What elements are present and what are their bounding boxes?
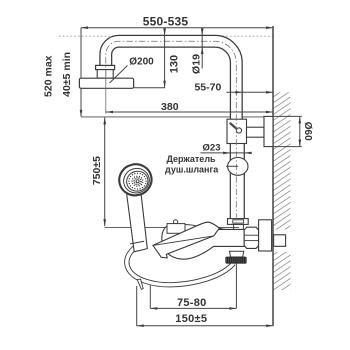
dim 750 line	[104, 117, 106, 226]
arrowheads	[80, 26, 301, 327]
knurled diverter knob	[226, 257, 246, 263]
dim 550-535 line	[81, 27, 273, 29]
DIMENSIONS	[81, 28, 302, 326]
wall escutcheon at faucet	[259, 220, 272, 251]
wall bracket flange	[264, 116, 273, 146]
diverter box	[227, 119, 247, 143]
shower head axis	[105, 70, 107, 114]
shower arm pipe (gooseneck)	[106, 41, 237, 119]
svg-text:130: 130	[169, 55, 181, 73]
mounting reference line	[81, 116, 264, 118]
svg-text:750±5: 750±5	[91, 156, 103, 185]
faucet inlet nut	[228, 219, 249, 225]
svg-text:520 max: 520 max	[42, 55, 54, 97]
extension line 75-80 right (faucet axis)	[235, 264, 237, 309]
extension line 75-80 left	[149, 284, 151, 309]
dim 75-80 line	[150, 307, 236, 309]
centerline of riser	[106, 41, 237, 224]
diverter knob connector	[229, 251, 243, 257]
svg-text:380: 380	[161, 101, 179, 113]
barrel top line	[210, 229, 244, 231]
faucet axis reference line	[105, 226, 239, 228]
svg-text:150±5: 150±5	[175, 313, 207, 325]
in-wall supply pipe	[274, 235, 286, 247]
svg-text:Ø60: Ø60	[302, 122, 313, 141]
svg-text:75-80: 75-80	[177, 297, 207, 309]
wall bracket arm	[247, 127, 265, 137]
wall hatching	[274, 92, 291, 290]
dia19 callout line	[201, 28, 203, 69]
svg-text:Ø200: Ø200	[129, 56, 154, 67]
diverter lever	[231, 124, 242, 134]
handshower nozzle dots inner ring	[131, 176, 143, 187]
shower head connector cap	[96, 65, 115, 69]
dia60 extension lines	[274, 115, 302, 117]
max-height dotted reference line	[59, 35, 273, 37]
dim 130 line	[164, 28, 166, 88]
leader to hose holder	[226, 165, 238, 167]
svg-text:55-70: 55-70	[194, 81, 221, 93]
spout face-break line	[153, 236, 214, 246]
extension line 150 left	[136, 286, 138, 326]
hose holder ball	[228, 158, 248, 176]
faucet top cartridge cap	[167, 224, 185, 234]
handshower head outer rim	[116, 161, 155, 199]
svg-text:душ.шланга: душ.шланга	[165, 164, 219, 174]
handshower handle	[127, 192, 148, 252]
hatch clearance around in-wall pipe	[274, 230, 291, 253]
dim 150 line	[137, 325, 274, 327]
labels	[143, 15, 189, 29]
dia60 dim line	[299, 116, 301, 146]
dim 55-70 line	[227, 91, 274, 93]
spout	[153, 222, 220, 258]
faucet body	[162, 222, 244, 259]
svg-text:Ø23: Ø23	[203, 142, 221, 153]
wall line	[272, 26, 274, 326]
svg-text:40±5 min: 40±5 min	[61, 52, 73, 97]
dia23 callout line	[200, 152, 249, 154]
handshower face plate	[124, 169, 150, 194]
faucet top button bump	[174, 220, 178, 224]
svg-text:Ø19: Ø19	[191, 54, 203, 74]
handshower head middle ring	[121, 166, 152, 196]
faucet inlet pipe stub	[233, 223, 235, 230]
svg-text:Держатель: Держатель	[167, 154, 217, 164]
hose end tip	[137, 279, 143, 289]
dim 380 line	[106, 111, 273, 113]
handshower handle cap line	[130, 241, 144, 244]
extension line left (520 max)	[80, 28, 82, 78]
svg-text:550-535: 550-535	[143, 15, 189, 29]
shower head connector block	[97, 70, 113, 79]
hex nut	[244, 227, 258, 248]
riser pipe lower section	[230, 142, 245, 219]
dia200 leader	[110, 66, 128, 84]
shower head disc	[79, 78, 133, 88]
shower hose	[127, 247, 234, 285]
handshower center nozzle	[134, 178, 141, 185]
extension disc bottom for 130	[134, 87, 165, 89]
handshower nozzle dots outer ring	[128, 173, 147, 190]
